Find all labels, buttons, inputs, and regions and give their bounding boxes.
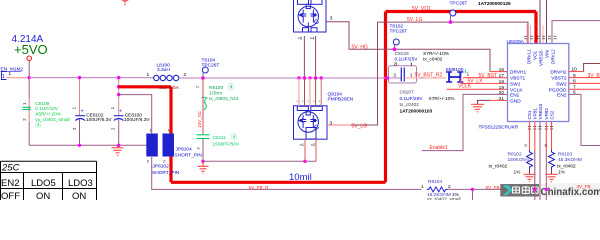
wire Q8104 sources down to bus [303, 36, 305, 78]
svg-text:1: 1 [421, 184, 424, 190]
wire C8133 right to SM8100 [404, 77, 446, 79]
wire EN1 [422, 94, 508, 150]
junction node Q8103 source [303, 160, 306, 163]
node +5VO circle [27, 56, 32, 61]
svg-text:JP8104: JP8104 [176, 147, 193, 153]
resistor R8104 zigzag [427, 187, 448, 192]
svg-text:vx_r0402_small: vx_r0402_small [427, 197, 461, 201]
svg-text:VIN: VIN [545, 50, 550, 58]
junction node VFB1 [533, 188, 536, 191]
svg-text:»4: »4 [310, 36, 315, 41]
svg-text:tx_r0603_h24: tx_r0603_h24 [209, 96, 239, 102]
transistor Q8103 (lower dual MOSFET) [294, 106, 328, 139]
svg-text:TPC26T: TPC26T [450, 1, 468, 7]
ground symbol left (red) [112, 145, 124, 155]
wire 5V_FB down [472, 189, 474, 200]
svg-text:2: 2 [448, 184, 451, 190]
capacitor C8111 (green) [197, 135, 210, 139]
wire R8102 to ground [529, 169, 531, 174]
junction node T8102 [393, 47, 397, 51]
svg-text:SW2: SW2 [556, 81, 567, 87]
svg-text:tx_c0402: tx_c0402 [423, 57, 443, 63]
test point T8104 circle [202, 67, 208, 73]
wire EN2 pin6 [569, 94, 600, 145]
test point T8104 stem [202, 73, 204, 78]
svg-text:VREG3: VREG3 [538, 103, 543, 119]
test point T8102 stem [393, 45, 395, 49]
svg-text:1%: 1% [514, 170, 522, 176]
IC U8100A bottom pin names [527, 103, 555, 119]
svg-text:ⓐ: ⓐ [231, 133, 237, 141]
test point top stem [450, 16, 452, 22]
svg-text:X5R/+/-20%: X5R/+/-20% [35, 111, 62, 117]
junction node at C8111 ground [201, 160, 204, 163]
wire thick red 5V into VIN [534, 12, 537, 44]
junction node thick red tap [117, 85, 121, 89]
IC left pin numbers [499, 67, 505, 102]
svg-text:GND: GND [510, 98, 521, 104]
jumper JP8104 pad left [146, 134, 158, 157]
svg-text:R8100: R8100 [209, 85, 223, 91]
svg-text:5V_FB_R: 5V_FB_R [249, 185, 270, 190]
junction node CE8102 bottom [78, 144, 81, 147]
resistor R8102 zigzag [527, 150, 533, 169]
svg-text:ON: ON [72, 191, 86, 200]
svg-text:Isat=5.5A: Isat=5.5A [159, 85, 180, 91]
capacitor CE8102 labels [86, 112, 112, 122]
svg-text:tx_r0402: tx_r0402 [489, 164, 508, 170]
capacitor C8109 labels [35, 101, 69, 129]
svg-text:3: 3 [330, 16, 333, 22]
wire R8103 to ground [551, 169, 553, 174]
svg-text:SHORT_PIN: SHORT_PIN [152, 170, 180, 176]
wire SW2 pin8 [569, 82, 600, 84]
svg-text:19: 19 [499, 85, 505, 91]
svg-text:EN2: EN2 [557, 92, 567, 98]
junction node top TP [449, 20, 453, 24]
wires into IC top pins [527, 0, 547, 44]
wire GND pin [490, 99, 508, 101]
svg-text:DRVL1: DRVL1 [527, 49, 532, 64]
capacitor CE8100 wire [118, 78, 120, 116]
svg-text:100UF/6.3V: 100UF/6.3V [124, 117, 150, 123]
junction node VFB2 [545, 188, 548, 191]
svg-text:tx_r0402: tx_r0402 [557, 164, 576, 170]
wire to JP8102 left pad [119, 95, 152, 134]
svg-text:JP8102: JP8102 [153, 164, 170, 170]
svg-text:16: 16 [499, 67, 505, 73]
svg-text:PMPB20EN: PMPB20EN [328, 97, 354, 103]
svg-text:+: + [81, 109, 84, 115]
junction node CE8100 top [117, 76, 120, 79]
svg-text:CS1: CS1 [527, 110, 532, 119]
resistor R8100 labels (green) [209, 83, 239, 102]
transistor Q8104 (top dual MOSFET, cut at top) [294, 0, 327, 32]
svg-text:3.3uH: 3.3uH [157, 67, 170, 73]
svg-text:ⓐ: ⓐ [228, 83, 234, 91]
svg-text:VBST1: VBST1 [510, 76, 526, 82]
svg-text:5V_VO1: 5V_VO1 [412, 6, 431, 12]
svg-text:«1: «1 [300, 142, 305, 147]
capacitor C8109 (green, in series on vertical wire) [22, 98, 31, 122]
svg-text:1: 1 [147, 72, 150, 78]
capacitor CE8102 symbol [75, 116, 85, 121]
svg-text:18: 18 [499, 79, 505, 85]
junction node 5V_FB tap [471, 188, 474, 191]
junction node T8104 [201, 76, 205, 80]
svg-text:»2: »2 [311, 142, 316, 147]
svg-text:VFB2: VFB2 [544, 108, 549, 120]
svg-text:17: 17 [499, 73, 505, 79]
inductor L8100 coils [154, 75, 179, 80]
svg-text:EN1: EN1 [510, 92, 520, 98]
wire 5V_FB_R from JP8102 down [152, 157, 422, 189]
svg-text:21: 21 [499, 96, 505, 102]
wire junction to Q8103 sources [203, 160, 316, 162]
svg-text:PGOOD: PGOOD [549, 87, 567, 93]
svg-text:1500PF/50V: 1500PF/50V [213, 142, 240, 148]
Q8103 top pin number marks [297, 100, 321, 104]
svg-text:1: 1 [2, 74, 5, 80]
IC U8100A top pin names [527, 49, 556, 66]
watermark light box [539, 183, 600, 197]
svg-text:R8102: R8102 [508, 151, 522, 157]
IC bottom pin number marks [528, 127, 553, 130]
svg-text:15V_SC: 15V_SC [197, 110, 202, 128]
svg-text:0.1UF/10V: 0.1UF/10V [35, 106, 59, 112]
wire SW node bus (inductor to C8133) [180, 77, 401, 79]
svg-text:45.3KOHM: 45.3KOHM [558, 157, 582, 163]
svg-text:C8111: C8111 [213, 135, 227, 141]
svg-text:LDO5: LDO5 [31, 178, 56, 189]
svg-text:VBST2: VBST2 [551, 76, 567, 82]
wires from IC bottom pins [529, 122, 531, 151]
svg-text:SHORT_PIN: SHORT_PIN [175, 153, 203, 159]
svg-text:TPC26T: TPC26T [390, 29, 408, 35]
svg-text:LDO3: LDO3 [68, 178, 93, 189]
svg-text:VCLK: VCLK [458, 83, 472, 89]
svg-text:C8133: C8133 [395, 51, 409, 57]
IC top pin number marks [524, 36, 557, 39]
svg-text:5V_FB: 5V_FB [486, 185, 500, 190]
wire DRVH2 pin10 [569, 71, 584, 73]
svg-text:5V_LG: 5V_LG [352, 123, 368, 129]
capacitor C8133 body box [389, 66, 417, 83]
svg-text:VCLK: VCLK [510, 87, 523, 93]
svg-text:2: 2 [184, 72, 187, 78]
watermark dark box [500, 184, 539, 197]
svg-text:ⓐ: ⓐ [35, 121, 41, 129]
svg-text:1AT200000125: 1AT200000125 [478, 1, 511, 7]
svg-text:DRVH2: DRVH2 [550, 70, 567, 76]
svg-text:X7R/+/-10%: X7R/+/-10% [423, 51, 450, 57]
wire bus +5VO horizontal to inductor [29, 77, 153, 79]
svg-text:5V_HG: 5V_HG [352, 45, 369, 51]
svg-text:3V_FB: 3V_FB [577, 184, 591, 189]
junction node CE8100 bottom [117, 144, 120, 147]
IC U8100A box [508, 44, 569, 122]
svg-text:1%: 1% [558, 170, 566, 176]
wire DRVL2 from right [552, 21, 600, 44]
IC U8100A left pin names [510, 70, 527, 105]
svg-text:tx_c0402: tx_c0402 [400, 102, 420, 108]
wire thick red 5V vertical through jumper [169, 87, 172, 183]
svg-text:VO1: VO1 [533, 50, 538, 60]
svg-text:20: 20 [499, 90, 505, 96]
svg-text:2: 2 [394, 61, 397, 67]
wire thick red 5V bottom horizontal [171, 181, 386, 184]
jumper SM8100 symbol [446, 72, 463, 82]
table 25C [1, 161, 97, 200]
wires bus to Q8103 drains [298, 78, 300, 107]
wire SM8100 to VBST1 [463, 77, 508, 79]
svg-text:10mil: 10mil [289, 172, 312, 183]
svg-text:VREG5: VREG5 [539, 50, 544, 66]
svg-text:1AT200000103: 1AT200000103 [400, 109, 433, 115]
transistor Q8103 source pins down [304, 139, 306, 161]
svg-text:1: 1 [467, 72, 470, 78]
ground symbol IC GND (red) [471, 104, 484, 112]
svg-text:1Ohm: 1Ohm [209, 91, 222, 97]
watermark chevron [503, 185, 513, 195]
wire down from T8104 junction [202, 78, 204, 134]
power symbol (red, cut at top) [121, 0, 129, 5]
svg-text:TPS51225CRUKR: TPS51225CRUKR [479, 124, 519, 130]
resistor R8100 squiggle [202, 98, 208, 111]
wire thick red 5V horizontal to jumper [119, 85, 171, 88]
svg-text:DRVL2: DRVL2 [551, 49, 556, 64]
svg-text:R8104: R8104 [428, 179, 442, 185]
svg-text:X7R/+/-10%: X7R/+/-10% [429, 96, 456, 102]
svg-text:vx_c0402_small: vx_c0402_small [35, 117, 69, 123]
wire connector to +5VO node (salmon) [7, 77, 30, 79]
svg-text:DRVH1: DRVH1 [510, 70, 527, 76]
svg-text:100UF/6.3V: 100UF/6.3V [86, 117, 112, 123]
svg-text:150KOhm: 150KOhm [508, 157, 530, 163]
svg-text:OFF: OFF [1, 191, 20, 200]
svg-text:«5: «5 [298, 36, 303, 41]
test point T8102 circle [393, 39, 399, 45]
junction node on bus [28, 76, 31, 79]
wire C8111 to ground junction [202, 139, 204, 162]
svg-text:C8107: C8107 [400, 90, 414, 96]
connector pin bracket [2, 72, 7, 81]
capacitor C8133 plates [400, 68, 402, 82]
wire VCLK stub [447, 88, 508, 90]
svg-text:R8103: R8103 [558, 151, 572, 157]
resistor R8103 zigzag [549, 150, 555, 169]
net 5V_HG wire from Q8104 pin3 [326, 22, 490, 72]
wire VBST2 pin9 [569, 77, 600, 79]
wire 5V_FB continuation [448, 188, 600, 190]
net 5V_LG wire from Q8103 pin3 [327, 124, 351, 126]
ground symbol R8103 [546, 174, 558, 182]
wire thick red 5V top horizontal [386, 10, 537, 13]
junction node CE8102 top [78, 76, 81, 79]
svg-text:VFB1: VFB1 [533, 108, 538, 120]
svg-text:2: 2 [394, 72, 397, 78]
wire thick red 5V right vertical [384, 12, 387, 183]
IC right pin numbers [572, 67, 578, 96]
junction node on thick red [385, 76, 389, 80]
svg-text:Enable1: Enable1 [430, 145, 449, 151]
svg-text:5V_LG: 5V_LG [407, 17, 423, 23]
svg-text:3V_BS: 3V_BS [588, 73, 600, 79]
IC U8100A right pin names [549, 70, 567, 99]
table texts [1, 163, 93, 203]
svg-text:ON: ON [36, 191, 50, 200]
wire +5VO vertical from circle [28, 61, 30, 146]
wire PGOOD pin7 [569, 88, 600, 90]
capacitor CE8100 symbol [114, 116, 124, 121]
ground symbol under C8111 [198, 161, 209, 174]
junction node JP8102 tap [117, 93, 120, 96]
svg-text:SW1: SW1 [510, 81, 521, 87]
svg-text:Chinafix.com: Chinafix.com [541, 187, 600, 198]
svg-text:25C: 25C [1, 163, 20, 174]
jumper JP8104 pad right [163, 134, 175, 157]
svg-text:1: 1 [9, 71, 12, 77]
ground symbol R8102 [524, 174, 536, 182]
capacitor CE8100 labels [124, 112, 150, 122]
svg-text:1: 1 [410, 72, 413, 78]
svg-text:0.1UF/25V: 0.1UF/25V [395, 57, 419, 63]
wire ground rail bottom-left [29, 144, 146, 146]
svg-text:EN2: EN2 [1, 178, 19, 189]
svg-text:0.1UF/25V: 0.1UF/25V [400, 96, 424, 102]
watermark CJK glyphs (painted) [513, 186, 539, 195]
capacitor CE8102 wire [79, 78, 81, 116]
test point top circle [450, 10, 456, 16]
svg-text:CS2: CS2 [550, 110, 555, 119]
wire SW1 stub [461, 78, 508, 84]
svg-text:+: + [119, 109, 122, 115]
junction nodes on SW bus [297, 76, 300, 79]
svg-text:+5VO: +5VO [14, 42, 48, 57]
